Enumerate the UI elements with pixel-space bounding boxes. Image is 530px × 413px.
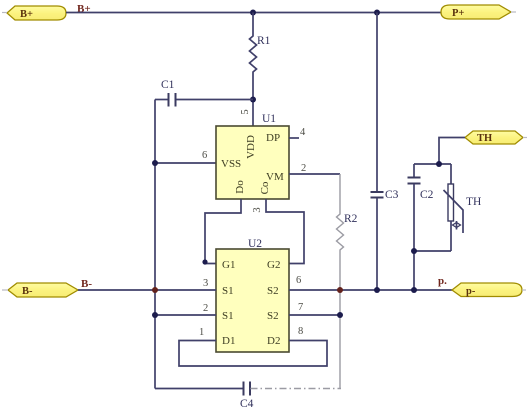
svg-text:2: 2 — [301, 163, 306, 174]
svg-text:DP: DP — [266, 132, 280, 144]
wire VSS pin6 — [155, 162, 216, 164]
wire stub at P- port tip — [522, 289, 526, 291]
wire D1-D2 loop — [179, 341, 327, 367]
wire U2 pin7 (S2) to R2 line — [289, 314, 340, 316]
pin 2 wire to R2 — [289, 173, 340, 175]
node junction top C3 — [374, 10, 380, 16]
wire left vertical rail — [154, 100, 156, 389]
transistor U2 — [216, 238, 289, 352]
capacitor C3 — [371, 13, 399, 291]
svg-text:B+: B+ — [20, 9, 33, 20]
svg-text:C1: C1 — [161, 79, 175, 91]
svg-text:C3: C3 — [385, 189, 399, 201]
svg-text:D2: D2 — [267, 335, 280, 347]
svg-text:C4: C4 — [240, 398, 254, 410]
svg-text:D1: D1 — [222, 335, 235, 347]
node junction R2 bottom — [337, 287, 343, 293]
svg-text:S2: S2 — [267, 310, 279, 322]
svg-text:U1: U1 — [262, 113, 276, 125]
svg-text:VM: VM — [266, 171, 284, 183]
svg-text:1: 1 — [199, 327, 204, 338]
resistor R1 — [250, 13, 271, 100]
node junction C2 branch bottom — [411, 287, 417, 293]
svg-text:5: 5 — [240, 109, 251, 114]
svg-text:4: 4 — [300, 127, 306, 138]
port B- — [8, 283, 78, 297]
wire B- to U2 pin3 — [78, 289, 216, 291]
port P- — [452, 283, 522, 297]
node junction C3 bottom — [374, 287, 380, 293]
thermistor TH — [444, 164, 482, 251]
svg-text:C2: C2 — [420, 189, 434, 201]
wire stub at B+ port tip — [2, 12, 7, 14]
svg-text:R1: R1 — [257, 35, 271, 47]
capacitor C4 — [155, 382, 341, 411]
wire U1 Co to U2 G2 — [266, 199, 304, 264]
node junction B- rail — [152, 287, 158, 293]
svg-text:TH: TH — [466, 196, 481, 208]
wire U2 pin2 (S1) — [155, 314, 216, 316]
pin 4 stub — [289, 137, 299, 139]
node junction pin7/R2 — [337, 312, 343, 318]
svg-text:6: 6 — [296, 275, 301, 286]
svg-text:B-: B- — [22, 286, 33, 297]
svg-text:S2: S2 — [267, 285, 279, 297]
svg-text:TH: TH — [477, 133, 492, 144]
svg-text:U2: U2 — [248, 238, 262, 250]
svg-text:S1: S1 — [222, 285, 234, 297]
port TH — [465, 131, 523, 144]
svg-text:Do: Do — [234, 180, 246, 194]
op-amp U1 — [216, 113, 289, 199]
svg-text:VDD: VDD — [245, 135, 257, 159]
svg-text:G2: G2 — [267, 259, 280, 271]
svg-text:p-: p- — [466, 286, 476, 297]
wire U2 pin6 (S2) to P- — [289, 289, 452, 291]
wire U1 Do to U2 G1 — [205, 199, 241, 264]
capacitor C1 — [155, 79, 253, 107]
node junction TH — [436, 161, 442, 167]
svg-text:R2: R2 — [344, 213, 358, 225]
node junction top R1 — [250, 10, 256, 16]
svg-text:3: 3 — [252, 207, 263, 212]
wire top rail B+ to P+ — [66, 12, 441, 14]
svg-text:P+: P+ — [452, 8, 464, 19]
svg-text:p.: p. — [438, 275, 447, 287]
svg-text:B-: B- — [81, 278, 92, 290]
capacitor C2 — [408, 164, 434, 290]
node junction pin2 rail — [152, 312, 158, 318]
port B+ — [7, 6, 66, 20]
svg-text:Co: Co — [259, 181, 271, 194]
svg-text:2: 2 — [203, 303, 208, 314]
svg-text:3: 3 — [203, 278, 208, 289]
wire stub at P+ port tip — [511, 11, 516, 13]
resistor R2 (grey branch) — [337, 174, 358, 389]
node junction VSS — [152, 160, 158, 166]
wire C2-thermistor top — [414, 163, 451, 165]
port P+ — [441, 5, 511, 19]
wire thermistor bottom to C2 line — [414, 250, 451, 252]
svg-text:8: 8 — [298, 326, 303, 337]
wire stub at B- port tip — [2, 289, 8, 291]
wire TH port to C2/thermistor — [439, 138, 465, 165]
node blob G1 — [202, 259, 207, 264]
svg-text:7: 7 — [298, 302, 303, 313]
svg-text:S1: S1 — [222, 310, 234, 322]
wire R1 to U1 pin5 — [252, 100, 254, 127]
svg-text:G1: G1 — [222, 259, 235, 271]
wire stub at TH port tip — [523, 137, 527, 139]
node junction R1/C1 — [250, 97, 256, 103]
node junction C2/thermistor bottom — [411, 248, 417, 254]
svg-text:VSS: VSS — [221, 158, 241, 170]
svg-text:6: 6 — [202, 150, 207, 161]
